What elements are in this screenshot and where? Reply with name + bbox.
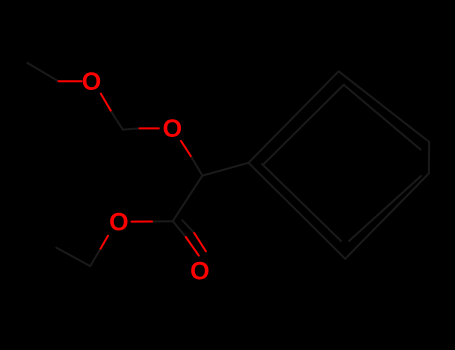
ring edge e5 V5-V6 (dark) <box>345 174 429 259</box>
svg-text:O: O <box>190 257 209 285</box>
double bond C=O line B carbon half (dark) <box>182 220 194 233</box>
bond O3-CH2c oxygen half (red) <box>100 236 108 250</box>
bond O2-CH carbon half (dark) <box>192 158 203 176</box>
ring edge e6 V6-V1 (dark) <box>249 163 346 259</box>
bond CH2a-O1 oxygen half (red) <box>59 80 82 82</box>
bond O2-CH oxygen half (red) <box>181 141 192 158</box>
ring edge e6 inner double line <box>262 164 341 241</box>
ring edge e1 inner double line <box>263 85 344 165</box>
svg-text:O: O <box>109 208 128 236</box>
bond O1-CH2b carbon half (dark) <box>112 112 123 130</box>
bond CH2b-O2 carbon half (dark) <box>123 128 140 129</box>
bond O1-CH2b oxygen half (red) <box>101 94 112 112</box>
double bond C=O line A carbon half (dark) <box>173 221 186 237</box>
double bond C=O line A oxygen half (red) <box>186 237 199 256</box>
bond CH-Ccarbonyl (dark) <box>173 176 203 222</box>
bond CH2c-CH3d ester ethyl (dark) <box>56 248 90 266</box>
ring edge e1 V1-T (dark) <box>249 71 339 163</box>
ring edge e2 T-V4 (dark) <box>339 71 430 142</box>
bond Ccarbonyl-O3 oxygen half (red) <box>132 221 153 223</box>
ring edge e2 inner double line <box>344 85 421 150</box>
bond O3-CH2c carbon half (dark) <box>90 250 100 266</box>
ring edge e5 inner double line <box>349 176 421 241</box>
svg-text:O: O <box>82 68 101 96</box>
bond C-C methyl CH3a to CH2a (ethoxy tail, carbon half, dark) <box>28 63 59 81</box>
svg-text:O: O <box>163 115 182 143</box>
bond Ccarbonyl-O3 carbon half (dark) <box>152 220 173 222</box>
bond CH-ring attachment (dark) <box>202 163 248 176</box>
double bond C=O line B oxygen half (red) <box>194 233 206 251</box>
bond CH2b-O2 oxygen half (red) <box>140 127 159 129</box>
ring edge e3 V4-V5 short right side (dark) <box>428 142 430 174</box>
